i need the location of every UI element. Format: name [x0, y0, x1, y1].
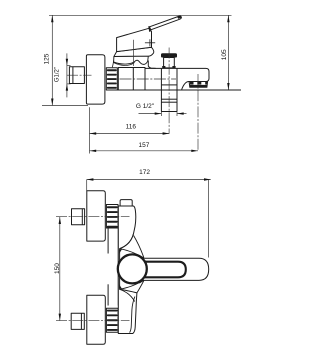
svg-text:125: 125: [44, 53, 51, 64]
svg-text:150: 150: [54, 263, 61, 274]
svg-text:172: 172: [139, 169, 150, 176]
svg-text:157: 157: [138, 142, 149, 149]
svg-text:105: 105: [221, 49, 228, 60]
svg-text:116: 116: [126, 124, 137, 131]
svg-text:G1/2": G1/2": [55, 67, 61, 82]
svg-text:G 1/2": G 1/2": [136, 103, 155, 110]
